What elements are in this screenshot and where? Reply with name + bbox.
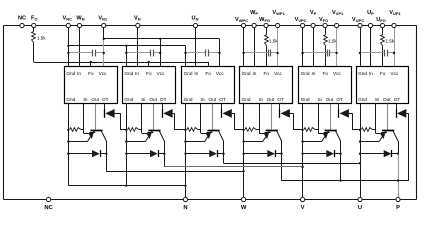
wire U phase rail (node U) — [224, 163, 361, 165]
transistor Q1 IGBT — [95, 104, 97, 130]
svg-text:1.5k: 1.5k — [386, 39, 395, 44]
resistor RG3 (gate) — [187, 128, 198, 132]
svg-text:OT: OT — [219, 97, 226, 102]
svg-text:Gnd: Gnd — [66, 97, 75, 102]
svg-text:VN1: VN1 — [98, 16, 108, 22]
terminal WP — [252, 23, 256, 27]
svg-text:VVP1: VVP1 — [332, 10, 344, 16]
junction gate-res row cell 2 — [125, 129, 127, 131]
wire RG2 to gate node — [139, 129, 142, 131]
terminal UP — [368, 23, 372, 27]
wire gate lead — [84, 133, 90, 135]
junction C2 left / Gnd column — [125, 52, 127, 54]
svg-text:VP: VP — [310, 10, 317, 16]
svg-text:Si: Si — [259, 97, 263, 102]
junction diode row cell 1 — [67, 153, 69, 155]
svg-text:WN: WN — [76, 16, 84, 22]
capacitor C4 (VWP1-VWPC decoupling) — [244, 52, 269, 54]
diode D5 (freewheel) — [303, 153, 327, 155]
resistor R4 1.5k (UFo pull-up) — [381, 34, 385, 47]
svg-text:Out: Out — [383, 97, 391, 102]
wire W phase rail (node W) — [106, 171, 243, 173]
junction D1 cathode / node column — [105, 153, 107, 155]
svg-text:OT: OT — [160, 97, 167, 102]
junction gate-res row cell 5 — [301, 129, 303, 131]
junction C3 left / Gnd column — [184, 52, 186, 54]
wire Q1 collector column to phase rail — [106, 141, 108, 171]
svg-text:Gnd: Gnd — [66, 71, 75, 76]
junction VNC column / VNC rail — [67, 45, 69, 47]
diode D2 (freewheel) — [126, 153, 150, 155]
capacitor C2 (control supply decoupling) — [126, 52, 151, 54]
wire Fo stub into U2 — [148, 62, 150, 67]
svg-text:NC: NC — [44, 205, 53, 211]
transistor Q6 IGBT — [387, 104, 389, 130]
diode D4 (freewheel) — [244, 153, 268, 155]
svg-text:VNC: VNC — [63, 16, 73, 22]
wire emitter row cell 2 — [126, 141, 145, 143]
diode D10 (OT sense) — [279, 104, 281, 110]
wire UFo terminal drop — [382, 26, 384, 34]
terminal VWPC — [242, 23, 246, 27]
svg-text:NC: NC — [18, 16, 26, 22]
wire WN input column to U1 In — [79, 26, 81, 67]
svg-text:OT: OT — [336, 97, 343, 102]
wire VWPC column to U4 Gnd — [243, 26, 245, 67]
diode D12 (OT sense) — [396, 104, 398, 110]
wire gate lead — [201, 133, 207, 135]
svg-text:Fo: Fo — [322, 71, 328, 76]
svg-text:WFO: WFO — [259, 17, 270, 23]
diode D6 (freewheel) — [360, 153, 384, 155]
wire U1 Gnd column (emitter/common) — [68, 104, 70, 186]
wire Q6 collector / P column — [398, 141, 400, 154]
junction emitter row cell 1 — [67, 140, 69, 142]
resistor R1 1.5k (Fo pull-up) — [32, 31, 36, 44]
wire WP input column to U4 In — [254, 26, 256, 67]
wire emitter row cell 1 — [68, 141, 87, 143]
terminal WFo — [264, 23, 268, 27]
wire Q2 collector column to phase rail — [164, 141, 166, 167]
transistor Q2 IGBT — [153, 104, 155, 130]
wire VUPC column to U6 Gnd — [360, 26, 362, 67]
transistor Q4 IGBT — [271, 104, 273, 130]
junction gate-res row cell 3 — [184, 129, 186, 131]
junction D4 cathode / node column — [280, 153, 282, 155]
junction Fo rail / U1 Fo — [90, 61, 92, 63]
junction D6 cathode / node column — [397, 153, 399, 155]
wire VNC stub into U2 Gnd — [126, 46, 128, 67]
svg-text:In: In — [194, 71, 198, 76]
wire RG1 to gate node — [81, 129, 84, 131]
svg-text:Gnd: Gnd — [184, 97, 193, 102]
svg-text:VVPC: VVPC — [295, 17, 307, 23]
svg-text:In: In — [77, 71, 81, 76]
wire VNC column to U1 Gnd — [68, 26, 70, 67]
svg-text:In: In — [311, 71, 315, 76]
svg-text:Gnd: Gnd — [358, 71, 367, 76]
junction Q6 column / P bus — [397, 179, 399, 181]
junction N bus / N column — [184, 185, 186, 187]
svg-text:V: V — [301, 205, 305, 211]
junction C5 right / VVP1 column — [335, 52, 337, 54]
wire RG4 to gate node — [256, 129, 259, 131]
svg-text:1.5k: 1.5k — [269, 39, 278, 44]
wire Q4 collector column to P bus — [281, 141, 283, 181]
resistor RG6 (gate) — [362, 128, 373, 132]
svg-text:Fo: Fo — [380, 71, 386, 76]
terminal VN — [136, 23, 140, 27]
svg-text:U: U — [358, 205, 362, 211]
diode D3 (freewheel) — [186, 153, 210, 155]
junction emitter row cell 6 — [359, 140, 361, 142]
junction diode row cell 2 — [125, 153, 127, 155]
svg-text:Vcc: Vcc — [99, 71, 107, 76]
wire U4 Gnd column (emitter/common) — [243, 104, 245, 200]
svg-text:Si: Si — [318, 97, 322, 102]
svg-text:Vcc: Vcc — [333, 71, 341, 76]
resistor RG2 (gate) — [128, 128, 139, 132]
capacitor C6 (VUP1-VUPC decoupling) — [360, 52, 385, 54]
svg-text:VWPC: VWPC — [235, 17, 248, 23]
wire emitter row cell 5 — [303, 141, 322, 143]
svg-text:Out: Out — [267, 97, 275, 102]
junction W rail / W column — [242, 170, 244, 172]
wire U3 Gnd column (emitter/common) — [185, 104, 187, 186]
wire VFo net into U5 Fo — [325, 47, 327, 67]
junction diode row cell 3 — [184, 153, 186, 155]
resistor R3 1.5k (VFo pull-up) — [324, 34, 328, 47]
terminal Fo (top) — [32, 23, 36, 27]
wire UFo net into U6 Fo — [382, 47, 384, 67]
wire VWP1 column to U4 Vcc (supply) — [277, 26, 279, 67]
terminal VUPC — [358, 23, 362, 27]
terminal P — [396, 197, 400, 201]
svg-text:Gnd: Gnd — [242, 97, 251, 102]
wire Fo net down to Fo rail — [33, 44, 35, 63]
diode D8 (OT sense) — [162, 104, 164, 110]
junction D2 cathode / node column — [163, 153, 165, 155]
wire N emitter bus — [68, 185, 185, 187]
svg-text:Fo: Fo — [88, 71, 94, 76]
wire RG6 to gate node — [373, 129, 376, 131]
junction C4 left / VWPC column — [242, 52, 244, 54]
junction gate-res row cell 1 — [67, 129, 69, 131]
terminal VWP1 — [276, 23, 280, 27]
terminal UN — [193, 23, 197, 27]
svg-text:Gnd: Gnd — [301, 97, 310, 102]
svg-text:OT: OT — [394, 97, 401, 102]
junction U rail / U column — [359, 162, 361, 164]
junction D3 cathode / node column — [222, 153, 224, 155]
junction diode row cell 5 — [301, 153, 303, 155]
terminal VP — [311, 23, 315, 27]
junction gate-res row cell 4 — [242, 129, 244, 131]
wire VP input column to U5 In — [313, 26, 315, 67]
wire VVP1 column to U5 Vcc (supply) — [336, 26, 338, 67]
transistor Q5 IGBT — [330, 104, 332, 130]
svg-text:Gnd: Gnd — [124, 71, 133, 76]
svg-text:Si: Si — [375, 97, 379, 102]
junction gate-res row cell 6 — [359, 129, 361, 131]
wire U6 Gnd column (emitter/common) — [360, 104, 362, 200]
wire U5 Gnd column (emitter/common) — [302, 104, 304, 200]
wire Q3 collector column to phase rail — [223, 141, 225, 163]
svg-text:W: W — [241, 205, 247, 211]
wire N column to terminal — [185, 186, 187, 200]
wire emitter row cell 3 — [186, 141, 205, 143]
wire Fo stub into U1 — [90, 62, 92, 67]
op-amp U5 gate-driver block — [299, 67, 352, 104]
resistor RG5 (gate) — [304, 128, 315, 132]
module outline border (left) — [3, 26, 5, 200]
svg-text:WP: WP — [250, 10, 258, 16]
wire U2 Si column — [141, 104, 143, 133]
terminal NC (bottom) — [46, 197, 50, 201]
svg-text:UN: UN — [192, 16, 199, 22]
wire WFo net into U4 Fo — [266, 47, 268, 67]
wire Q5 collector column to P bus — [340, 141, 342, 181]
terminal VN1 — [102, 23, 106, 27]
module outline border (bottom rail with pins) — [4, 199, 417, 201]
svg-text:VFO: VFO — [319, 17, 328, 23]
module outline border (right) — [416, 26, 418, 200]
svg-text:In: In — [135, 71, 139, 76]
junction V rail / V column — [301, 166, 303, 168]
wire P collector bus — [282, 180, 409, 182]
junction C1 right / Vcc column — [103, 52, 105, 54]
svg-text:Si: Si — [200, 97, 204, 102]
wire D11 anode to cell 6 gate-res node — [352, 113, 354, 130]
junction emitter row cell 3 — [184, 140, 186, 142]
wire VVPC column to U5 Gnd — [302, 26, 304, 67]
resistor R2 1.5k (WFo pull-up) — [265, 34, 269, 47]
svg-text:In: In — [252, 71, 256, 76]
diode D11 (OT sense) — [338, 104, 340, 110]
terminal UFo — [380, 23, 384, 27]
svg-text:VUP1: VUP1 — [389, 10, 401, 16]
svg-text:VUPC: VUPC — [352, 17, 364, 23]
transistor Q3 IGBT — [212, 104, 214, 130]
svg-text:FO: FO — [31, 16, 38, 22]
svg-text:Vcc: Vcc — [216, 71, 224, 76]
svg-text:Vcc: Vcc — [390, 71, 398, 76]
junction D5 cathode / node column — [339, 153, 341, 155]
svg-text:UFO: UFO — [376, 17, 386, 23]
wire D12 anode drop to P bus — [408, 113, 410, 180]
resistor RG1 (gate) — [70, 128, 81, 132]
wire U4 Si column — [259, 104, 261, 133]
svg-text:Out: Out — [326, 97, 334, 102]
terminal U — [358, 197, 362, 201]
wire U2 Gnd column (emitter/common) — [126, 104, 128, 186]
junction VNC rail / U2 Gnd — [125, 45, 127, 47]
terminal VNC — [66, 23, 70, 27]
op-amp U1 gate-driver block — [65, 67, 118, 104]
svg-text:Si: Si — [83, 97, 87, 102]
svg-text:1.5k: 1.5k — [37, 36, 46, 41]
wire WFo terminal drop — [266, 26, 268, 34]
svg-text:In: In — [369, 71, 373, 76]
wire V phase rail (node V) — [164, 166, 302, 168]
wire U5 Si column — [318, 104, 320, 133]
junction C1 left / Gnd column — [67, 52, 69, 54]
wire gate lead — [376, 133, 382, 135]
wire VNC rail — [68, 45, 185, 47]
junction P bus / Q5 column — [339, 179, 341, 181]
module outline border (top rail with pins) — [4, 25, 417, 27]
junction N bus / U2 Gnd column — [125, 185, 127, 187]
diode D7 (OT sense) — [104, 104, 106, 110]
terminal VVP1 — [335, 23, 339, 27]
capacitor C1 (control supply decoupling) — [68, 52, 93, 54]
wire VUP1 column to U6 Vcc (supply) — [394, 26, 396, 67]
svg-text:OT: OT — [277, 97, 284, 102]
svg-text:1.5k: 1.5k — [328, 39, 337, 44]
junction diode row cell 4 — [242, 153, 244, 155]
wire gate lead — [259, 133, 265, 135]
wire VN1 stub into U2 Vcc — [160, 39, 162, 67]
wire Fo rail (to blocks 1-3 Fo pins) — [34, 62, 208, 64]
junction C3 right / Vcc column — [218, 52, 220, 54]
op-amp U4 gate-driver block — [240, 67, 293, 104]
wire VN1 rail — [104, 38, 220, 40]
wire VN1 column to U1 Vcc (supply) — [103, 39, 105, 67]
wire D8 anode to cell 3 gate-res node — [174, 113, 176, 130]
svg-text:Fo: Fo — [146, 71, 152, 76]
svg-text:Gnd: Gnd — [242, 71, 251, 76]
svg-text:Gnd: Gnd — [184, 71, 193, 76]
svg-text:Out: Out — [149, 97, 157, 102]
wire D10 anode to cell 5 gate-res node — [293, 113, 295, 130]
junction C2 right / Vcc column — [159, 52, 161, 54]
junction emitter row cell 4 — [242, 140, 244, 142]
wire gate lead — [142, 133, 148, 135]
svg-text:Gnd: Gnd — [124, 97, 133, 102]
svg-text:OT: OT — [102, 97, 109, 102]
wire VN input column to U2 In — [137, 26, 139, 67]
svg-text:P: P — [396, 205, 400, 211]
svg-text:Vcc: Vcc — [157, 71, 165, 76]
wire VNC rail end into U3 Gnd — [185, 46, 187, 67]
junction emitter row cell 2 — [125, 140, 127, 142]
wire VFo terminal drop — [325, 26, 327, 34]
svg-text:Out: Out — [91, 97, 99, 102]
diode D1 (freewheel) — [68, 153, 92, 155]
svg-text:Fo: Fo — [205, 71, 211, 76]
terminal N — [183, 197, 187, 201]
wire VN1 column drop — [103, 26, 105, 39]
diode D9 (OT sense) — [221, 104, 223, 110]
terminal V — [301, 197, 305, 201]
junction diode row cell 6 — [359, 153, 361, 155]
wire U1 Si column — [83, 104, 85, 133]
junction Fo rail / U2 Fo — [148, 61, 150, 63]
wire U3 Si column — [200, 104, 202, 133]
svg-text:Gnd: Gnd — [301, 71, 310, 76]
op-amp U6 gate-driver block — [357, 67, 409, 104]
junction emitter row cell 5 — [301, 140, 303, 142]
svg-text:Vcc: Vcc — [274, 71, 282, 76]
svg-text:Fo: Fo — [263, 71, 269, 76]
junction VN1 column / VN1 rail — [103, 38, 105, 40]
terminal VVPC — [301, 23, 305, 27]
svg-text:Si: Si — [141, 97, 145, 102]
resistor RG4 (gate) — [245, 128, 256, 132]
terminal VUP1 — [392, 23, 396, 27]
terminal W — [242, 197, 246, 201]
wire UP input column to U6 In — [370, 26, 372, 67]
wire U6 Si column — [375, 104, 377, 133]
wire D9 anode to cell 4 gate-res node — [234, 113, 236, 130]
capacitor C5 (VVP1-VVPC decoupling) — [303, 52, 328, 54]
wire gate lead — [318, 133, 324, 135]
junction C5 left / VVPC column — [301, 52, 303, 54]
wire Fo stub into U3 — [208, 62, 210, 67]
svg-text:Gnd: Gnd — [358, 97, 367, 102]
op-amp U3 gate-driver block — [182, 67, 235, 104]
junction C6 right / VUP1 column — [393, 52, 395, 54]
svg-text:Out: Out — [209, 97, 217, 102]
wire D7 anode to cell 2 gate-res node — [120, 113, 122, 130]
junction VN1 rail / U2 Vcc — [159, 38, 161, 40]
terminal NC (top) — [20, 23, 24, 27]
wire Fo terminal drop — [33, 26, 35, 31]
svg-text:VN: VN — [134, 16, 141, 22]
wire VN1 rail end into U3 Vcc — [219, 39, 221, 67]
junction C4 right / VWP1 column — [276, 52, 278, 54]
svg-text:N: N — [183, 205, 187, 211]
wire RG3 to gate node — [198, 129, 201, 131]
wire emitter row cell 4 — [244, 141, 263, 143]
op-amp U2 gate-driver block — [123, 67, 176, 104]
svg-text:VWP1: VWP1 — [272, 10, 285, 16]
terminal WN — [77, 23, 81, 27]
wire UN input column to U3 In — [195, 26, 197, 67]
svg-text:UP: UP — [367, 10, 374, 16]
capacitor C3 (control supply decoupling) — [186, 52, 206, 54]
wire RG5 to gate node — [315, 129, 318, 131]
wire emitter row cell 6 — [360, 141, 379, 143]
terminal VFo — [323, 23, 327, 27]
junction C6 left / VUPC column — [359, 52, 361, 54]
